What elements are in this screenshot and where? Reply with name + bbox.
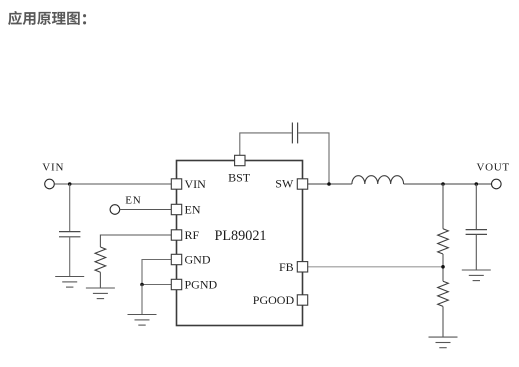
ground input capacitor bbox=[55, 277, 84, 288]
pin label SW bbox=[275, 176, 294, 190]
wire GND pin to junction bbox=[142, 260, 171, 285]
chip name label PL89021 bbox=[215, 228, 267, 244]
ground RF resistor bbox=[86, 288, 115, 299]
wire EN terminal to EN pin bbox=[120, 209, 172, 211]
svg-text:BST: BST bbox=[228, 171, 251, 185]
wire capacitor C3 to ground bbox=[475, 234, 477, 270]
wire bootstrap capacitor to SW node bbox=[298, 133, 329, 184]
wire output capacitor node down to capacitor C3 bbox=[475, 184, 477, 230]
wire inductor L1 to VOUT terminal bbox=[404, 183, 492, 185]
capacitor C1 input bbox=[59, 232, 80, 237]
svg-text:SW: SW bbox=[275, 176, 294, 190]
junction output capacitor node bbox=[475, 182, 479, 186]
wire resistor R1 to resistor R2 through FB node bbox=[442, 254, 444, 281]
pin label GND bbox=[185, 252, 211, 266]
junction input node bbox=[68, 182, 72, 186]
capacitor C2 bootstrap BST bbox=[292, 123, 297, 144]
pin label BST bbox=[228, 171, 251, 185]
pin label RF bbox=[185, 228, 200, 242]
junction feedback divider node bbox=[441, 182, 445, 186]
wire input node down to capacitor C1 bbox=[69, 184, 71, 232]
pin SW bbox=[297, 179, 307, 189]
title 应用原理图： bbox=[8, 11, 86, 25]
pin GND bbox=[171, 254, 181, 264]
pin RF bbox=[171, 230, 181, 240]
svg-text:VIN: VIN bbox=[42, 162, 64, 174]
wire SW pin to inductor L1 bbox=[308, 183, 352, 185]
svg-text:EN: EN bbox=[185, 202, 201, 216]
resistor R1 feedback top bbox=[438, 229, 449, 254]
pin EN bbox=[171, 204, 181, 214]
pin label VIN bbox=[185, 177, 207, 191]
svg-text:GND: GND bbox=[185, 252, 211, 266]
terminal VOUT bbox=[492, 179, 502, 189]
ground output capacitor bbox=[462, 270, 491, 281]
resistor R3 RF bbox=[95, 247, 106, 272]
svg-text:PL89021: PL89021 bbox=[215, 228, 267, 244]
wire capacitor C1 to ground bbox=[69, 237, 71, 277]
ground GND PGND bbox=[128, 315, 157, 326]
chip U1 PL89021 body bbox=[177, 161, 303, 326]
terminal VIN bbox=[45, 179, 55, 189]
junction SW node bbox=[327, 182, 331, 186]
inductor L1 bbox=[352, 176, 404, 184]
pin VIN bbox=[171, 179, 181, 189]
pin label PGND bbox=[185, 277, 218, 291]
resistor R2 feedback bottom bbox=[438, 281, 449, 306]
wire junction to ground bbox=[141, 285, 143, 315]
svg-text:PGOOD: PGOOD bbox=[253, 293, 295, 307]
svg-text:PGND: PGND bbox=[185, 277, 218, 291]
wire output node down to resistor R1 bbox=[442, 184, 444, 229]
node EN terminal label bbox=[125, 195, 141, 207]
svg-text:VOUT: VOUT bbox=[477, 162, 510, 174]
capacitor C3 output bbox=[466, 230, 487, 235]
junction FB node bbox=[441, 265, 445, 269]
pin label PGOOD bbox=[253, 293, 295, 307]
terminal EN bbox=[110, 205, 120, 215]
pin label FB bbox=[279, 260, 294, 274]
ground feedback divider bbox=[429, 337, 458, 348]
svg-text:FB: FB bbox=[279, 260, 294, 274]
svg-text:RF: RF bbox=[185, 228, 200, 242]
pin PGOOD bbox=[297, 295, 307, 305]
junction GND PGND node bbox=[140, 283, 144, 287]
wire resistor R3 to ground bbox=[99, 272, 101, 288]
wire RF pin to resistor R3 bbox=[100, 235, 171, 247]
node VIN terminal label bbox=[42, 162, 64, 174]
pin BST bbox=[235, 155, 245, 165]
pin FB bbox=[297, 262, 307, 272]
pin PGND bbox=[171, 279, 181, 289]
svg-text:EN: EN bbox=[125, 195, 141, 207]
wire resistor R2 to ground bbox=[442, 306, 444, 337]
wire FB pin to FB node bbox=[308, 266, 443, 268]
pin label EN bbox=[185, 202, 201, 216]
svg-text:VIN: VIN bbox=[185, 177, 207, 191]
wire PGND pin to junction bbox=[142, 284, 171, 286]
wire VIN terminal to VIN pin bbox=[54, 183, 171, 185]
wire BST pin up and to bootstrap capacitor bbox=[240, 133, 292, 155]
node VOUT terminal label bbox=[477, 162, 510, 174]
